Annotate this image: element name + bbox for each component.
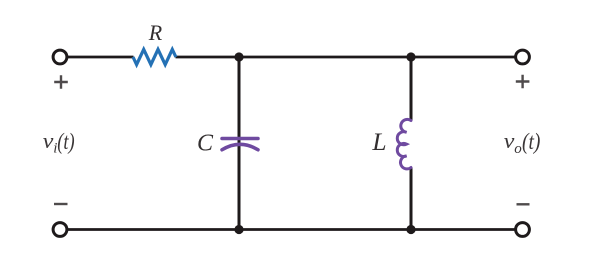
capacitor C (curved bottom plate) [222, 144, 258, 150]
junction dot bottom C [234, 225, 243, 234]
junction dot top L [406, 52, 415, 61]
terminal bottom-right [516, 223, 530, 237]
minus sign left [54, 203, 68, 205]
svg-text:L: L [371, 127, 386, 156]
wire inductor branch top [410, 57, 413, 121]
plus sign right [516, 75, 530, 89]
wire top-left (input to resistor) [68, 56, 134, 59]
wire inductor branch bottom [410, 167, 413, 230]
wire bottom rail [68, 228, 515, 231]
junction dot top C [234, 52, 243, 61]
terminal bottom-left [53, 223, 67, 237]
svg-text:v: v [43, 128, 54, 153]
label vo(t) [504, 128, 541, 157]
resistor R [133, 49, 176, 64]
label vi(t) [43, 128, 75, 156]
terminal top-left [53, 50, 67, 64]
svg-text:(t): (t) [522, 129, 540, 154]
terminal top-right [516, 50, 530, 64]
minus sign right [517, 203, 530, 205]
svg-text:(t): (t) [57, 129, 74, 154]
inductor L coil [397, 119, 411, 169]
junction dot bottom L [406, 225, 415, 234]
capacitor C (top plate) [222, 137, 258, 141]
plus sign left [54, 75, 68, 89]
svg-text:C: C [197, 130, 214, 156]
wire top-right (resistor to output terminal) [176, 56, 515, 59]
svg-text:R: R [148, 20, 163, 45]
svg-text:v: v [504, 128, 515, 153]
wire capacitor branch [238, 57, 241, 230]
